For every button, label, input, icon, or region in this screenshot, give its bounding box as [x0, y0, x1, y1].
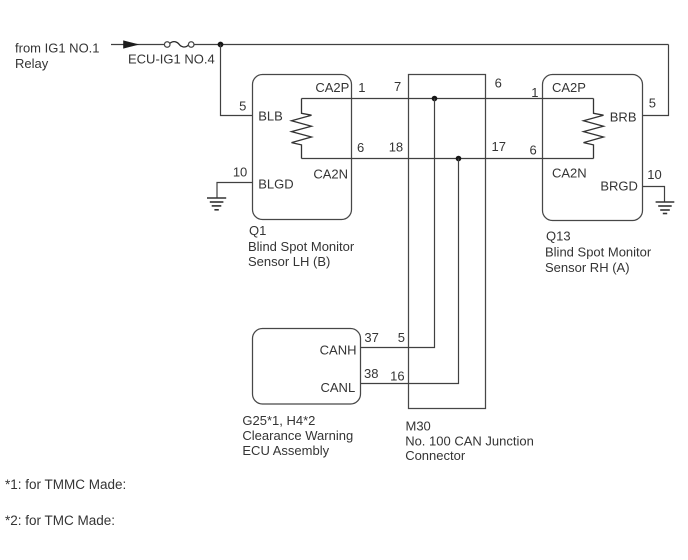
junction dot CANH on CA2P bus: [432, 96, 438, 102]
wire: CANL from ECU to M30 vertical: [361, 159, 459, 384]
ECU description: [242, 413, 353, 458]
M30 description: [405, 419, 534, 464]
svg-text:CA2N: CA2N: [313, 167, 348, 182]
svg-text:CANH: CANH: [320, 343, 357, 358]
svg-text:37: 37: [364, 330, 378, 345]
wire: top feed line right segment: [194, 44, 668, 46]
svg-text:Sensor RH (A): Sensor RH (A): [545, 260, 630, 275]
svg-text:BRGD: BRGD: [600, 179, 638, 194]
resistor R in Q13: [584, 99, 604, 159]
svg-text:CA2P: CA2P: [552, 80, 586, 95]
junction dot on feed line: [218, 42, 224, 48]
ECU box Clearance Warning ECU Assembly: [253, 329, 361, 405]
wire: CA2N bus: [302, 158, 594, 160]
Q1 description: [248, 223, 355, 269]
wire: BLGD to ground: [217, 183, 253, 198]
resistor R in Q1: [292, 99, 312, 159]
svg-text:Clearance Warning: Clearance Warning: [242, 428, 353, 443]
svg-text:6: 6: [495, 76, 502, 91]
arrow: feed direction: [123, 40, 139, 48]
svg-text:16: 16: [390, 368, 404, 383]
svg-text:BLB: BLB: [258, 109, 283, 124]
svg-text:38: 38: [364, 366, 378, 381]
junction dot CANL on CA2N bus: [456, 156, 462, 162]
fuse ECU-IG1 NO.4: [164, 42, 194, 48]
svg-text:1: 1: [358, 80, 365, 95]
svg-text:*1: for TMMC Made:: *1: for TMMC Made:: [5, 477, 126, 492]
wire: right side drop to Q13 pin 5: [643, 45, 669, 116]
Q13 description: [545, 229, 652, 275]
svg-text:1: 1: [531, 85, 538, 100]
Q1 box Blind Spot Monitor Sensor LH: [253, 75, 352, 220]
Q13 box Blind Spot Monitor Sensor RH: [543, 75, 643, 221]
wire: BRGD to ground: [643, 187, 665, 202]
svg-text:Relay: Relay: [15, 56, 49, 71]
svg-text:*2: for TMC Made:: *2: for TMC Made:: [5, 513, 115, 528]
ground symbol left: [207, 198, 226, 210]
svg-text:5: 5: [649, 96, 656, 111]
text: from IG1 NO.1 Relay: [15, 40, 100, 71]
svg-text:ECU-IG1 NO.4: ECU-IG1 NO.4: [128, 51, 215, 66]
svg-text:No. 100 CAN Junction: No. 100 CAN Junction: [405, 433, 534, 448]
svg-text:BLGD: BLGD: [258, 177, 293, 192]
svg-text:CANL: CANL: [321, 380, 356, 395]
svg-text:17: 17: [492, 139, 506, 154]
svg-text:6: 6: [357, 140, 364, 155]
svg-text:Connector: Connector: [405, 448, 466, 463]
svg-text:10: 10: [233, 165, 247, 180]
wire: CA2P bus: [302, 98, 594, 100]
svg-text:Q1: Q1: [249, 223, 266, 238]
svg-text:5: 5: [239, 99, 246, 114]
svg-text:M30: M30: [406, 419, 431, 434]
svg-text:CA2N: CA2N: [552, 166, 587, 181]
svg-text:G25*1, H4*2: G25*1, H4*2: [242, 413, 315, 428]
svg-text:18: 18: [389, 140, 403, 155]
svg-text:Blind Spot Monitor: Blind Spot Monitor: [248, 239, 355, 254]
svg-text:7: 7: [394, 79, 401, 94]
wire: drop to Q1 pin 5: [221, 45, 253, 116]
svg-text:5: 5: [398, 330, 405, 345]
ground symbol right: [656, 202, 675, 214]
wire: top feed line left segment: [111, 44, 164, 46]
svg-text:Q13: Q13: [546, 229, 571, 244]
svg-text:10: 10: [647, 167, 661, 182]
svg-text:ECU Assembly: ECU Assembly: [242, 443, 329, 458]
wire: CANH from ECU to M30 vertical: [361, 99, 435, 348]
svg-text:from IG1 NO.1: from IG1 NO.1: [15, 40, 100, 55]
svg-text:Sensor LH (B): Sensor LH (B): [248, 254, 330, 269]
svg-text:Blind Spot Monitor: Blind Spot Monitor: [545, 244, 652, 259]
svg-text:BRB: BRB: [610, 109, 637, 124]
svg-text:CA2P: CA2P: [315, 80, 349, 95]
svg-text:6: 6: [530, 143, 537, 158]
M30 junction connector box: [409, 75, 486, 409]
